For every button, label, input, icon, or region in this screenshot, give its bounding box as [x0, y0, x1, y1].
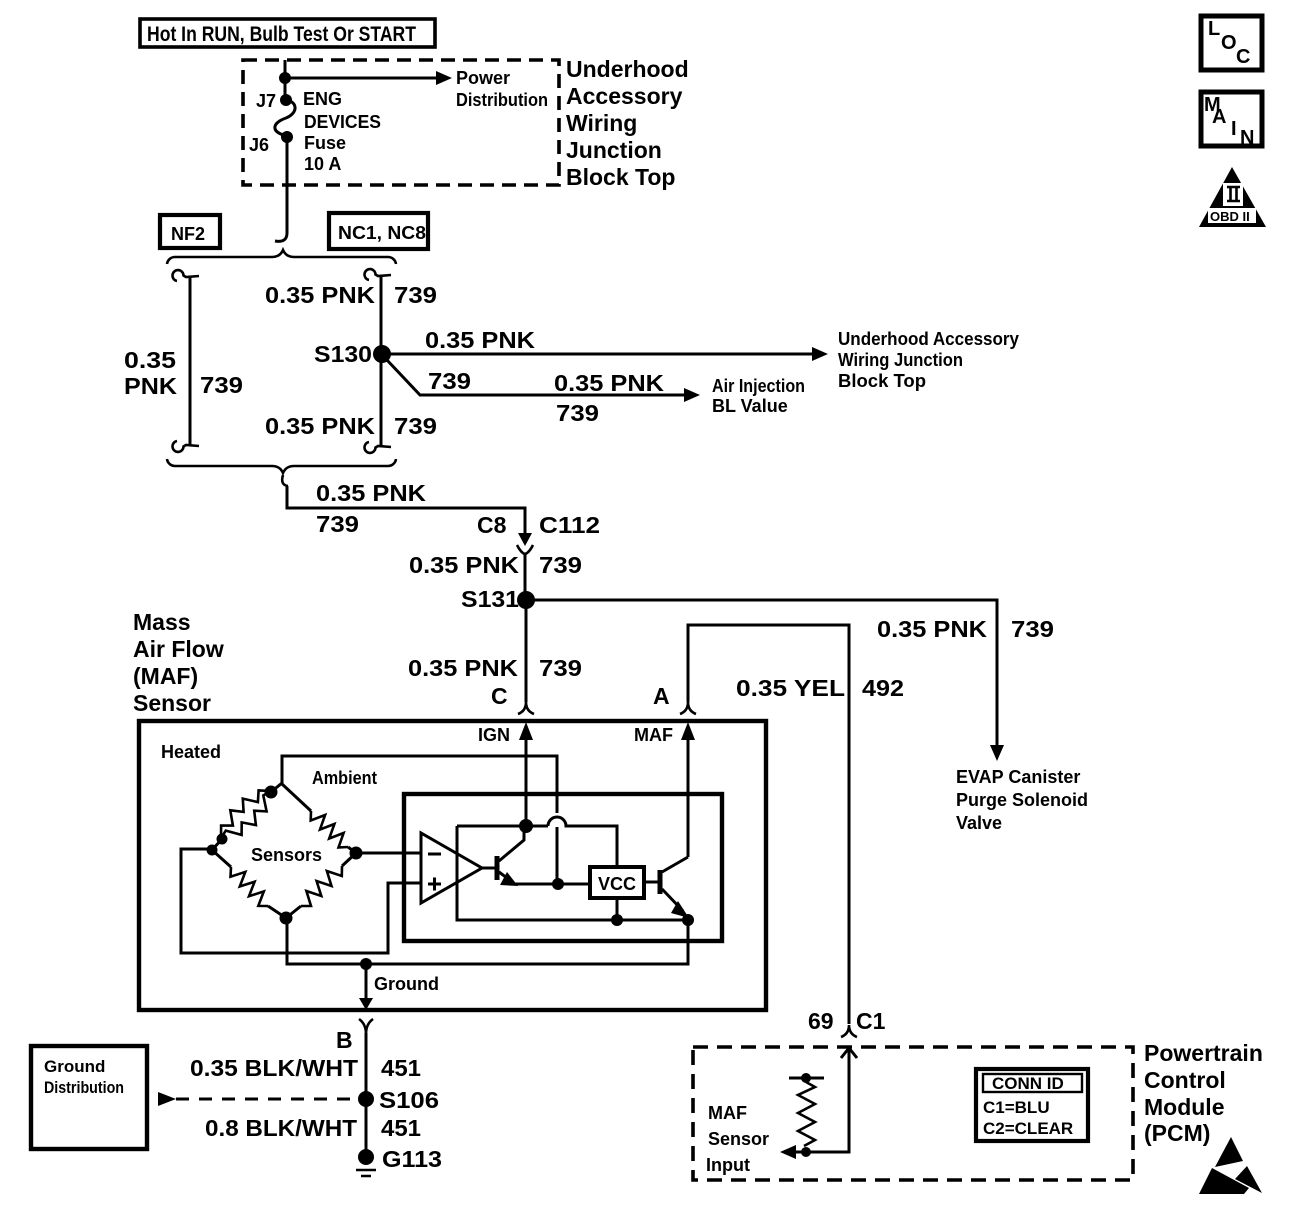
- svg-text:0.35 PNK: 0.35 PNK: [408, 655, 518, 681]
- svg-text:(MAF): (MAF): [133, 663, 198, 689]
- svg-text:739: 739: [1011, 616, 1054, 642]
- svg-text:0.35 PNK: 0.35 PNK: [409, 552, 519, 578]
- svg-text:S130: S130: [314, 341, 372, 367]
- svg-text:C8: C8: [477, 512, 507, 538]
- svg-text:10 A: 10 A: [304, 154, 341, 174]
- svg-text:C112: C112: [539, 512, 600, 538]
- svg-text:A: A: [653, 683, 670, 709]
- svg-text:0.35 BLK/WHT: 0.35 BLK/WHT: [190, 1055, 358, 1081]
- svg-text:S106: S106: [379, 1087, 439, 1113]
- svg-text:Hot In RUN, Bulb Test Or START: Hot In RUN, Bulb Test Or START: [147, 23, 416, 46]
- svg-text:739: 739: [539, 655, 582, 681]
- svg-text:A: A: [1212, 106, 1226, 128]
- svg-text:0.35 PNK: 0.35 PNK: [265, 282, 375, 308]
- svg-text:Power: Power: [456, 68, 510, 88]
- svg-text:B: B: [336, 1027, 353, 1053]
- svg-text:0.35 YEL: 0.35 YEL: [736, 675, 845, 701]
- svg-text:0.35: 0.35: [124, 347, 176, 373]
- svg-text:Heated: Heated: [161, 742, 221, 762]
- svg-text:Wiring: Wiring: [566, 110, 637, 136]
- svg-text:PNK: PNK: [124, 373, 177, 399]
- svg-text:NC1, NC8: NC1, NC8: [338, 223, 426, 243]
- svg-text:NF2: NF2: [171, 224, 205, 244]
- svg-text:Block Top: Block Top: [838, 371, 926, 391]
- svg-text:Underhood: Underhood: [566, 56, 689, 82]
- svg-text:Ground: Ground: [374, 974, 439, 994]
- svg-text:IGN: IGN: [478, 725, 510, 745]
- svg-text:Ground: Ground: [44, 1057, 105, 1076]
- svg-text:C1=BLU: C1=BLU: [983, 1098, 1050, 1117]
- svg-text:Purge Solenoid: Purge Solenoid: [956, 790, 1088, 810]
- svg-text:739: 739: [394, 413, 437, 439]
- svg-text:Ambient: Ambient: [312, 768, 377, 788]
- svg-text:Valve: Valve: [956, 813, 1002, 833]
- svg-text:Fuse: Fuse: [304, 133, 346, 153]
- svg-text:Distribution: Distribution: [456, 90, 548, 110]
- svg-text:OBD II: OBD II: [1210, 209, 1250, 224]
- svg-text:Accessory: Accessory: [566, 83, 683, 109]
- svg-text:EVAP Canister: EVAP Canister: [956, 767, 1080, 787]
- svg-text:S131: S131: [461, 586, 519, 612]
- svg-text:739: 739: [428, 368, 471, 394]
- svg-text:Distribution: Distribution: [44, 1078, 124, 1097]
- svg-text:Sensor: Sensor: [708, 1129, 769, 1149]
- svg-text:MAF: MAF: [634, 725, 673, 745]
- svg-text:C: C: [491, 683, 508, 709]
- svg-text:Control: Control: [1144, 1067, 1226, 1093]
- svg-text:0.35 PNK: 0.35 PNK: [554, 370, 664, 396]
- svg-text:I: I: [1231, 118, 1237, 140]
- svg-text:J6: J6: [249, 135, 269, 155]
- svg-text:N: N: [1240, 127, 1254, 149]
- svg-text:G113: G113: [382, 1146, 442, 1172]
- svg-text:Air Flow: Air Flow: [133, 636, 224, 662]
- svg-text:Underhood Accessory: Underhood Accessory: [838, 329, 1019, 349]
- svg-text:0.35 PNK: 0.35 PNK: [265, 413, 375, 439]
- svg-text:69: 69: [808, 1008, 834, 1034]
- svg-text:739: 739: [200, 372, 243, 398]
- svg-text:CONN ID: CONN ID: [992, 1074, 1064, 1093]
- svg-text:0.8 BLK/WHT: 0.8 BLK/WHT: [205, 1115, 357, 1141]
- svg-text:0.35 PNK: 0.35 PNK: [316, 480, 426, 506]
- svg-text:0.35 PNK: 0.35 PNK: [877, 616, 987, 642]
- svg-text:ENG: ENG: [303, 89, 342, 109]
- svg-text:451: 451: [381, 1115, 421, 1141]
- svg-text:BL Value: BL Value: [712, 396, 788, 416]
- svg-text:C2=CLEAR: C2=CLEAR: [983, 1119, 1073, 1138]
- svg-text:739: 739: [539, 552, 582, 578]
- svg-text:Mass: Mass: [133, 609, 191, 635]
- svg-text:Module: Module: [1144, 1094, 1225, 1120]
- svg-text:C: C: [1236, 46, 1250, 68]
- svg-text:492: 492: [862, 675, 904, 701]
- svg-text:Wiring Junction: Wiring Junction: [838, 350, 963, 370]
- svg-text:VCC: VCC: [598, 874, 636, 894]
- svg-text:J7: J7: [256, 91, 276, 111]
- svg-text:Sensor: Sensor: [133, 690, 211, 716]
- svg-text:DEVICES: DEVICES: [304, 112, 381, 132]
- svg-text:451: 451: [381, 1055, 421, 1081]
- svg-text:Block Top: Block Top: [566, 164, 675, 190]
- svg-text:Input: Input: [706, 1155, 750, 1175]
- svg-text:C1: C1: [856, 1008, 886, 1034]
- svg-text:MAF: MAF: [708, 1103, 747, 1123]
- svg-text:Junction: Junction: [566, 137, 662, 163]
- svg-text:L: L: [1208, 18, 1220, 40]
- svg-text:0.35 PNK: 0.35 PNK: [425, 327, 535, 353]
- svg-text:739: 739: [394, 282, 437, 308]
- svg-text:739: 739: [316, 511, 359, 537]
- svg-text:O: O: [1221, 32, 1237, 54]
- svg-text:Powertrain: Powertrain: [1144, 1040, 1263, 1066]
- svg-text:739: 739: [556, 400, 599, 426]
- svg-text:Air Injection: Air Injection: [712, 376, 805, 396]
- svg-text:Sensors: Sensors: [251, 845, 322, 865]
- svg-text:(PCM): (PCM): [1144, 1120, 1210, 1146]
